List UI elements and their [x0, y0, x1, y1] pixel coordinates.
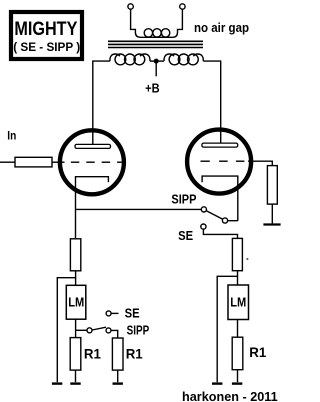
- wire S2 contact b to R1 (second): [111, 330, 118, 338]
- svg-text:MIGHTY: MIGHTY: [14, 18, 77, 40]
- wire grid resistor to ground: [271, 204, 273, 223]
- wire S1 to V2 cathode lead: [228, 220, 238, 222]
- title box MIGHTY (SE - SIPP): [11, 12, 82, 59]
- tube V2 cathode: [202, 176, 238, 221]
- svg-text:LM: LM: [230, 296, 246, 310]
- ground (left bypass): [52, 382, 62, 384]
- wire +B lead: [155, 61, 157, 76]
- transformer T1 secondary winding: [144, 29, 170, 37]
- wire right bypass branch: [217, 276, 237, 382]
- svg-text:SIPP: SIPP: [127, 324, 150, 338]
- svg-text:SIPP: SIPP: [171, 193, 196, 207]
- switch S1 contact b: [222, 218, 227, 223]
- transformer T1 secondary terminal (left): [128, 4, 133, 9]
- switch S2 SE contact: [106, 311, 111, 316]
- wire from right primary to plate of V2: [203, 61, 220, 143]
- wire junction to switch S2: [76, 329, 87, 331]
- tube V2 envelope: [187, 130, 251, 194]
- ground (right R1): [232, 382, 242, 384]
- transformer T1 secondary terminal (right): [180, 4, 185, 9]
- ground (switched R1): [113, 382, 123, 384]
- wire R1 right to ground: [237, 370, 239, 383]
- tube V1 cathode: [76, 177, 109, 239]
- ground (grid resistor): [263, 223, 280, 225]
- svg-text:SE: SE: [125, 307, 140, 321]
- switch S2 contact b: [106, 328, 111, 333]
- wire R5 to LM (left): [75, 271, 77, 285]
- svg-text:+B: +B: [145, 80, 160, 95]
- wire input resistor to V1 grid: [52, 161, 65, 163]
- svg-text:SE: SE: [178, 229, 193, 243]
- wire V2 grid to grid resistor: [248, 161, 272, 165]
- transformer T1 core (no air gap): [108, 41, 203, 47]
- switch S2 blade: [92, 327, 106, 330]
- transformer T1 primary winding (left half): [110, 54, 150, 65]
- ground (left R1): [70, 382, 80, 384]
- switch S1 SE contact: [201, 224, 206, 229]
- transformer T1 primary winding (right half): [164, 54, 203, 65]
- resistor R1 (switched, second): [112, 338, 123, 370]
- tube V1 grid (dashed): [71, 161, 122, 163]
- tube V1 envelope: [60, 130, 124, 194]
- regulator LM (left): [66, 285, 86, 319]
- wire secondary left lead: [131, 9, 183, 37]
- ground (right bypass): [212, 382, 222, 384]
- tube V2 plate: [202, 143, 238, 147]
- resistor R3 grid leak (right edge): [267, 166, 277, 205]
- switch S1 contact a: [201, 207, 206, 212]
- wire SIPP rail (V1 cathode to switch S1): [76, 208, 202, 210]
- regulator LM (right): [228, 285, 249, 320]
- wire from left primary to plate of V1: [93, 61, 110, 144]
- wire SE contact to right cathode chain: [203, 229, 237, 238]
- wire R1 switched to ground: [117, 370, 119, 382]
- wire LM to R1 (right): [237, 320, 239, 338]
- resistor R2 input (horizontal): [15, 157, 52, 167]
- svg-text:no air gap: no air gap: [194, 21, 249, 35]
- resistor R5 (V1 cathode, top): [70, 239, 80, 271]
- wire R4 to LM (right): [237, 271, 239, 285]
- svg-text:R1: R1: [126, 346, 143, 362]
- svg-text:In: In: [7, 129, 16, 143]
- tube V2 grid (dashed): [201, 160, 245, 162]
- wire primary center: [150, 60, 164, 62]
- switch S2 contact a: [87, 328, 92, 333]
- stray mark: [246, 258, 248, 260]
- tube V1 plate: [75, 144, 111, 148]
- svg-text:LM: LM: [68, 295, 84, 309]
- node: primary center tap junction: [154, 59, 159, 64]
- resistor R4 (V2 cathode, top): [232, 238, 242, 270]
- svg-text:( SE - SIPP ): ( SE - SIPP ): [13, 40, 80, 54]
- svg-text:R1: R1: [84, 346, 101, 362]
- svg-text:R1: R1: [249, 344, 266, 360]
- wire SE contact dash: [112, 312, 119, 314]
- resistor R1 (right chain): [232, 337, 243, 370]
- switch S1 blade: [206, 211, 223, 220]
- wire left bypass branch: [57, 278, 75, 383]
- wire LM to R1 (left): [75, 319, 77, 337]
- wire R1 left to ground: [75, 370, 77, 382]
- wire input: [0, 161, 15, 163]
- resistor R1 (left chain): [70, 338, 81, 371]
- svg-text:harkonen - 2011: harkonen - 2011: [182, 389, 278, 402]
